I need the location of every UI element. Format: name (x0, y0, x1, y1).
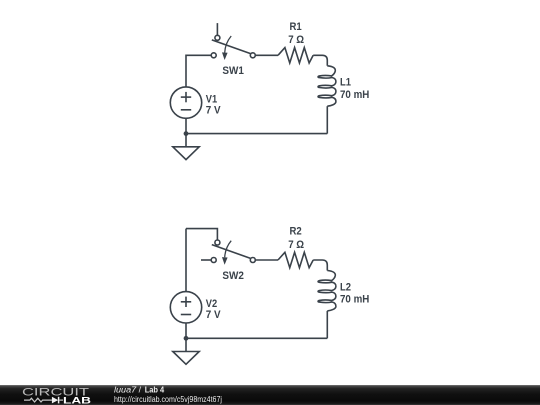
svg-text:7 Ω: 7 Ω (288, 239, 304, 251)
CircuitLab logo (22, 386, 91, 405)
wire (255, 54, 278, 56)
label R2 (290, 226, 302, 238)
wire (255, 259, 278, 261)
label 7 V (206, 309, 221, 321)
node junction (184, 131, 189, 136)
wire (313, 55, 327, 66)
svg-text:7 V: 7 V (206, 104, 221, 116)
svg-text:http://circuitlab.com/c5vj98mz: http://circuitlab.com/c5vj98mz4t67j (114, 394, 222, 404)
wire (186, 55, 211, 87)
label 70 mH (340, 294, 369, 306)
footer title luua7 / Lab 4 (114, 385, 164, 395)
node junction (184, 336, 189, 341)
voltage source V1 (170, 87, 201, 118)
label 7 &#937; (288, 34, 304, 46)
ground (173, 338, 199, 364)
svg-text:7 V: 7 V (206, 309, 221, 321)
label 7 &#937; (288, 239, 304, 251)
svg-text:L2: L2 (340, 281, 351, 293)
inductor L2 (318, 271, 336, 311)
wire (open top stub) (216, 23, 218, 35)
svg-text:L1: L1 (340, 77, 351, 89)
wire (326, 106, 328, 133)
svg-text:LAB: LAB (63, 395, 91, 405)
wire (186, 337, 327, 339)
wire (313, 260, 327, 271)
wire (185, 323, 187, 338)
svg-text:SW2: SW2 (222, 270, 244, 282)
label L2 (340, 281, 351, 293)
switch SW1 (211, 35, 255, 60)
wire (open throw stub) (201, 259, 211, 261)
svg-text:Lab 4: Lab 4 (145, 385, 165, 395)
svg-text:R1: R1 (290, 21, 302, 33)
wire (185, 229, 187, 292)
footer url (114, 394, 222, 404)
svg-text:luua7: luua7 (114, 385, 137, 395)
voltage source V2 (170, 292, 201, 323)
label V1 (206, 93, 217, 105)
svg-text:SW1: SW1 (222, 65, 244, 77)
label SW1 (222, 65, 244, 77)
footer bar (0, 385, 540, 405)
resistor R1 (278, 48, 313, 63)
svg-text:7 Ω: 7 Ω (288, 34, 304, 46)
wire (185, 118, 187, 133)
wire (326, 311, 328, 338)
label 7 V (206, 104, 221, 116)
label V2 (206, 298, 217, 310)
label 70 mH (340, 89, 369, 101)
svg-text:R2: R2 (290, 226, 302, 238)
svg-text:70 mH: 70 mH (340, 294, 369, 306)
wire (186, 133, 327, 135)
inductor L1 (318, 66, 336, 106)
ground (173, 134, 199, 160)
wire (186, 229, 217, 240)
label L1 (340, 77, 351, 89)
resistor R2 (278, 252, 313, 267)
svg-text:70 mH: 70 mH (340, 89, 369, 101)
label R1 (290, 21, 302, 33)
label SW2 (222, 270, 244, 282)
switch SW2 (211, 240, 255, 265)
